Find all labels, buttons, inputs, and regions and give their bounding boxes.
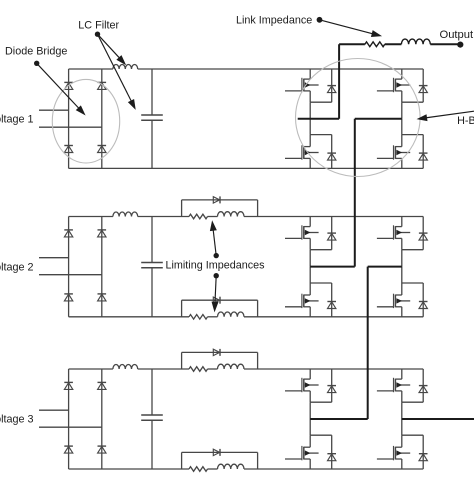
- svg-text:Link Impedance: Link Impedance: [236, 14, 312, 26]
- svg-text:Diode Bridge: Diode Bridge: [5, 45, 67, 57]
- svg-text:Voltage 3: Voltage 3: [0, 414, 34, 426]
- svg-text:Output: Output: [440, 29, 474, 41]
- svg-text:H-Bridge: H-Bridge: [457, 115, 474, 127]
- svg-text:Voltage 1: Voltage 1: [0, 114, 34, 126]
- svg-text:LC Filter: LC Filter: [78, 19, 119, 31]
- svg-text:Limiting Impedances: Limiting Impedances: [166, 260, 266, 272]
- svg-text:Voltage 2: Voltage 2: [0, 261, 34, 273]
